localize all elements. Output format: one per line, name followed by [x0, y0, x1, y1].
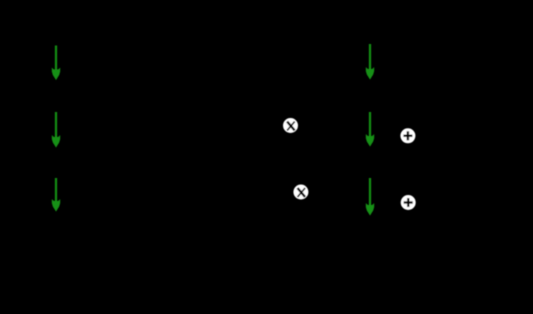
left pipe velocity arrow v2 — [52, 112, 60, 147]
eddy current into page symbol X2 — [293, 185, 308, 200]
right pipe velocity arrow v6 — [366, 178, 374, 215]
left pipe velocity arrow v3 — [52, 178, 60, 211]
eddy current into page symbol X1 — [283, 118, 298, 133]
right pipe velocity arrow v4 — [366, 44, 374, 79]
right pipe velocity arrow v5 — [366, 112, 374, 146]
eddy current out of page symbol P2 — [401, 195, 416, 210]
left pipe velocity arrow v1 — [52, 46, 60, 80]
eddy current out of page symbol P1 — [400, 128, 415, 143]
